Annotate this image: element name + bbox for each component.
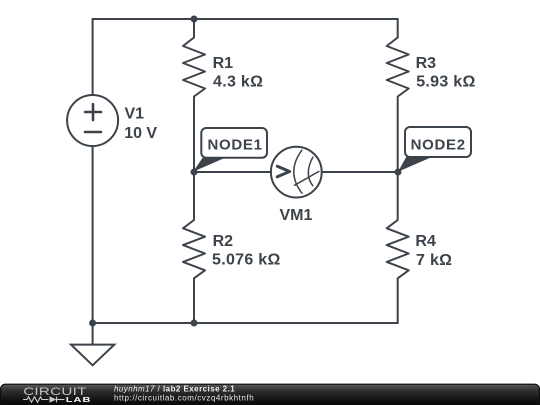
wire node1 to voltmeter: [193, 171, 271, 173]
junction ground tap: [89, 320, 96, 327]
svg-text:V1: V1: [125, 106, 145, 123]
junction node NODE1: [191, 169, 198, 176]
svg-text:VM1: VM1: [279, 207, 312, 224]
logo resistor-diode squiggle: [23, 397, 65, 403]
resistor R2: [183, 172, 205, 323]
voltmeter VM1: [271, 147, 322, 198]
svg-text:R4: R4: [415, 233, 436, 250]
svg-text:5.076 kΩ: 5.076 kΩ: [212, 252, 281, 269]
svg-text:NODE1: NODE1: [208, 137, 263, 154]
junction top node: [191, 16, 198, 23]
wire left branch upper: [92, 19, 94, 95]
svg-text:R1: R1: [213, 55, 234, 72]
svg-text:LAB: LAB: [66, 396, 92, 404]
svg-text:NODE2: NODE2: [411, 137, 466, 154]
node NODE2 flag: [398, 127, 471, 172]
wire top horizontal: [93, 18, 398, 20]
svg-text:R2: R2: [213, 233, 234, 250]
voltage source V1: [67, 95, 118, 146]
resistor R3: [387, 19, 409, 172]
svg-text:7 kΩ: 7 kΩ: [416, 252, 452, 269]
svg-text:4.3 kΩ: 4.3 kΩ: [213, 73, 263, 90]
wire left branch lower: [92, 146, 94, 323]
junction node NODE2: [395, 169, 402, 176]
svg-text:R3: R3: [416, 55, 437, 72]
node NODE1 flag: [193, 128, 267, 172]
svg-text:5.93 kΩ: 5.93 kΩ: [416, 73, 475, 90]
wire voltmeter to node2: [322, 171, 398, 173]
resistor R4: [387, 172, 409, 323]
svg-text:huynhm17 / lab2 Exercise 2.1: huynhm17 / lab2 Exercise 2.1: [114, 384, 235, 393]
resistor R1: [183, 19, 205, 172]
svg-text:http://circuitlab.com/cvzq4rbk: http://circuitlab.com/cvzq4rbkhtnfh: [114, 393, 254, 402]
junction bottom node: [191, 320, 198, 327]
ground: [71, 323, 114, 365]
wire bottom horizontal: [93, 322, 398, 324]
svg-text:10 V: 10 V: [124, 125, 157, 142]
